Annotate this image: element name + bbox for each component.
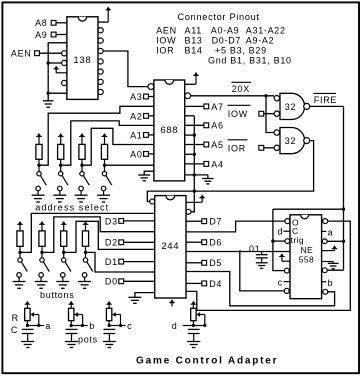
capacitor pot c — [104, 329, 116, 341]
potentiometer c — [106, 308, 111, 320]
wire trigger loop left — [273, 209, 285, 270]
trigger bubble U5 L5 — [284, 268, 289, 273]
svg-text:AEN: AEN — [11, 49, 32, 59]
pin label c — [278, 277, 290, 287]
pin label A9 — [35, 30, 47, 40]
connector pin D2 — [119, 240, 124, 245]
+5V arrow U1 VCC — [98, 7, 111, 23]
wire FIRE down — [343, 106, 345, 270]
resistor RB2 — [39, 231, 45, 246]
pin label A0 — [130, 149, 142, 159]
svg-text:b: b — [328, 278, 334, 288]
svg-text:32: 32 — [285, 102, 296, 112]
output bubble U1 O4 — [98, 69, 103, 74]
svg-text:D7: D7 — [209, 217, 222, 227]
wire IOW to U3A — [264, 113, 274, 115]
inverting input bubble U1 G2B — [62, 60, 67, 65]
pin label D6 — [209, 238, 222, 248]
node 20X junction — [264, 94, 267, 97]
+5V arrow pot b — [68, 301, 74, 309]
output bubble U1 O6 — [98, 89, 103, 94]
wire U2 to A5 — [185, 144, 204, 146]
pin label A4 — [211, 159, 223, 169]
inverting input bubble U1 G1 — [62, 80, 67, 85]
wire switch4 to U2 — [105, 164, 154, 166]
wire U4 to U5 out4 — [186, 221, 350, 310]
label D0-D7 — [212, 35, 242, 45]
svg-text:Gnd B1, B31, B10: Gnd B1, B31, B10 — [208, 55, 292, 65]
pot b wiper — [74, 312, 83, 325]
svg-text:A3: A3 — [130, 92, 142, 102]
ground pot a — [21, 342, 34, 348]
pin stub a — [39, 321, 51, 331]
wire pot c junction — [109, 321, 120, 326]
wire U3B output to U4 enables — [147, 141, 313, 202]
ground U2 right — [202, 175, 213, 184]
title Game Control Adapter — [136, 355, 278, 366]
label B13 — [185, 35, 203, 45]
connector pin A7 — [204, 104, 209, 109]
svg-text:244: 244 — [161, 241, 179, 252]
label Gnd B1, B31, B10 — [208, 55, 292, 65]
pin label D7 — [209, 217, 222, 227]
pin label b — [322, 278, 334, 288]
node pot b 2 — [81, 324, 84, 327]
button switch SB4 — [82, 258, 93, 277]
svg-text:.01: .01 — [246, 244, 261, 254]
connector pin D3 — [119, 219, 124, 224]
svg-text:A1: A1 — [130, 130, 142, 140]
wire D2 to U4 — [124, 241, 155, 243]
connector pin A0 — [144, 152, 149, 157]
pin label A3 — [130, 92, 142, 102]
svg-text:C: C — [11, 325, 18, 335]
wire pot d junction — [193, 321, 204, 326]
pin stub c — [121, 321, 133, 331]
pin label A7 — [211, 102, 223, 112]
svg-text:A2: A2 — [130, 111, 142, 121]
wire U1 enable rail — [48, 43, 67, 93]
inverting enable bubble U2 — [148, 84, 154, 90]
wire trig branch to U5 L7 — [240, 252, 284, 291]
svg-text:D3: D3 — [105, 216, 118, 226]
pin label A1 — [130, 130, 142, 140]
node pot d 2 — [203, 324, 206, 327]
svg-text:address select: address select — [35, 202, 109, 212]
potentiometer d — [191, 308, 196, 320]
svg-text:c: c — [127, 321, 132, 331]
node pot c 1 — [108, 324, 111, 327]
ground U4 left — [128, 293, 154, 304]
svg-text:A0: A0 — [130, 149, 142, 159]
wire A9 to U1 — [56, 34, 67, 36]
wire U3A output FIRE — [310, 105, 344, 107]
output bubble U1 O1 — [98, 38, 103, 43]
connector pin A1 — [144, 133, 149, 138]
input bubble U3B-2 — [274, 145, 279, 150]
+5V arrow R2 — [58, 133, 64, 144]
pin label D2 — [105, 238, 118, 248]
potentiometer b — [69, 308, 74, 320]
potentiometer a — [25, 308, 30, 320]
button switch SB1 — [17, 258, 27, 277]
wire AEN to U1 — [39, 52, 61, 54]
ground under U1 — [43, 93, 53, 107]
+5V arrow RB2 — [39, 221, 45, 231]
wire button2 to U4 — [42, 217, 155, 253]
svg-text:D2: D2 — [105, 238, 118, 248]
pin stub d — [172, 321, 194, 331]
pin stub b — [83, 321, 95, 331]
wire D1 to U4 — [124, 261, 155, 263]
+5V arrow U5 right — [322, 245, 338, 250]
pin label D3 — [105, 216, 118, 226]
svg-text:IOR: IOR — [156, 45, 174, 55]
svg-text:pots: pots — [78, 334, 98, 344]
+5V arrow RB1 — [17, 221, 23, 231]
wire A1 to U2 — [148, 134, 154, 136]
label +5 B3, B29 — [215, 45, 267, 55]
inverting input bubble U1 pin AEN — [62, 51, 67, 56]
wire U2 to A7 — [185, 105, 204, 107]
svg-text:138: 138 — [73, 55, 91, 66]
svg-text:A11: A11 — [185, 25, 202, 35]
capacitor pot d — [188, 329, 200, 341]
node pot c 2 — [119, 324, 122, 327]
resistor R3 — [79, 144, 85, 159]
label B14 — [185, 45, 203, 55]
ground pot d — [187, 342, 200, 348]
svg-text:FIRE: FIRE — [314, 95, 337, 105]
node FIRE-loop — [342, 208, 345, 211]
wire RB2 to button — [41, 246, 43, 257]
wire A0 to U2 — [148, 153, 154, 155]
svg-text:B14: B14 — [185, 45, 203, 55]
svg-text:20X: 20X — [232, 84, 250, 94]
wire R3 to switch — [81, 159, 83, 171]
input bubble U3B-1 — [274, 130, 279, 135]
svg-text:IOR: IOR — [228, 143, 246, 153]
input bubble U3A-2 — [274, 111, 279, 116]
node RB4 junction — [84, 251, 87, 254]
input bubble U3A-1 — [274, 96, 279, 101]
or-gate U3A 7432 — [280, 93, 310, 119]
label IOR — [156, 45, 174, 55]
wire pot a junction — [27, 321, 38, 326]
wire U2 to A6 — [185, 124, 204, 126]
pin label A6 — [211, 121, 223, 131]
svg-text:+5 B3, B29: +5 B3, B29 — [215, 45, 267, 55]
svg-text:b: b — [89, 321, 95, 331]
node pot a 1 — [26, 324, 29, 327]
label A0-A9 — [211, 25, 240, 35]
wire U4 trig net — [186, 251, 290, 253]
+5V arrow U5 left — [279, 253, 290, 261]
wire U2 Q tie — [185, 116, 195, 191]
connector pin A9 — [51, 32, 56, 37]
svg-text:D1: D1 — [105, 257, 118, 267]
svg-text:D0: D0 — [105, 277, 118, 287]
node Q tie 1 — [193, 133, 196, 136]
pin label D1 — [105, 257, 118, 267]
ground S2 — [53, 191, 66, 202]
+5V arrow RB4 — [83, 221, 89, 231]
svg-text:558: 558 — [299, 254, 314, 264]
resistor RB4 — [82, 231, 88, 246]
svg-text:A8: A8 — [35, 18, 47, 28]
connector pin A4 — [204, 162, 209, 167]
svg-text:B13: B13 — [185, 35, 203, 45]
node RB3 junction — [62, 251, 65, 254]
node R1-switch junction — [37, 164, 40, 167]
ground SB3 — [56, 277, 69, 288]
wire switch3 to U2 — [82, 128, 154, 165]
button switch SB3 — [61, 258, 72, 277]
svg-text:32: 32 — [285, 136, 296, 146]
trigger bubble U5 L3 — [273, 239, 290, 244]
+5V arrow RB3 — [61, 221, 67, 231]
pin label D0 — [105, 277, 118, 287]
net label FIRE — [314, 93, 338, 105]
connector pin AEN — [35, 51, 40, 56]
ground U2 left — [138, 171, 154, 181]
label A11 — [185, 25, 202, 35]
+5V arrow R3 — [79, 133, 85, 144]
connector pin D0 — [119, 279, 124, 284]
switch S4 — [101, 172, 112, 191]
pin label d — [278, 226, 290, 236]
svg-text:688: 688 — [160, 125, 178, 136]
connector pin A6 — [204, 123, 209, 128]
net label 20X — [232, 82, 252, 94]
pin label D5 — [209, 258, 222, 268]
label buttons — [40, 290, 74, 300]
wire switch2 to U2 — [61, 121, 154, 165]
node R2-switch junction — [59, 164, 62, 167]
label AEN — [156, 25, 177, 35]
ground pot c — [103, 342, 116, 348]
node R4-switch junction — [103, 164, 106, 167]
node RB1 junction — [18, 251, 21, 254]
connector pin IOW — [259, 111, 264, 116]
svg-text:AEN: AEN — [156, 25, 177, 35]
pin label AEN — [11, 49, 32, 59]
node RB2 junction — [40, 251, 43, 254]
output bubble U2 P=Q — [185, 93, 191, 99]
node pot a 2 — [37, 324, 40, 327]
comparator U2 74688 — [154, 80, 185, 181]
wire U4 to D6 — [186, 241, 202, 243]
pot a wiper — [30, 312, 39, 325]
output bubble U5 R7 — [323, 289, 328, 294]
ground SB2 — [35, 277, 48, 288]
connector pin A5 — [204, 142, 209, 147]
node Q tie 2 — [193, 153, 196, 156]
label .01 — [246, 244, 261, 254]
wire D3 to U4 — [124, 220, 155, 222]
node FIRE-R3 — [342, 240, 345, 243]
svg-text:A6: A6 — [211, 121, 223, 131]
capacitor C5 .01 — [256, 252, 268, 263]
+5V arrow U1 pin5 — [53, 66, 67, 73]
wire U4 to U5 out1 — [186, 221, 285, 232]
svg-text:D0-D7: D0-D7 — [212, 35, 242, 45]
wire A8 to U1 — [56, 22, 67, 24]
svg-text:a: a — [45, 321, 51, 331]
svg-text:D6: D6 — [209, 238, 222, 248]
wire U4 to D5 — [186, 262, 202, 264]
pot d wiper — [196, 312, 205, 325]
svg-text:d: d — [172, 321, 178, 331]
wire button1 to U4 — [20, 213, 155, 252]
wire R2 to switch — [60, 159, 62, 171]
svg-text:A0-A9: A0-A9 — [211, 25, 240, 35]
or-gate U3B 7432 — [280, 128, 310, 154]
svg-text:buttons: buttons — [40, 290, 74, 300]
label Connector Pinout — [178, 12, 260, 22]
node loop-L3 — [271, 239, 274, 242]
connector pin D4 — [202, 281, 207, 286]
label A31-A22 — [246, 25, 286, 35]
+5V arrow U4 pin — [186, 194, 205, 202]
svg-text:A7: A7 — [211, 102, 223, 112]
pin label A2 — [130, 111, 142, 121]
wire RB3 to button — [63, 246, 65, 257]
switch S2 — [58, 172, 69, 191]
svg-text:R: R — [12, 313, 19, 323]
pin label A5 — [211, 140, 223, 150]
svg-text:a: a — [328, 228, 334, 238]
trigger bubble U5 R5 — [322, 268, 343, 273]
wire D0 to U4 — [124, 280, 155, 282]
connector pin A2 — [144, 114, 149, 119]
output bubble U1 O0 — [98, 28, 103, 33]
+5V arrow pot a — [25, 301, 31, 309]
wire pot b junction — [71, 321, 82, 326]
node Q tie 3 — [193, 173, 196, 176]
wire trigger loop top — [273, 208, 344, 210]
wire U1 output to U2 enable — [103, 51, 148, 87]
label C — [11, 325, 18, 335]
enable bubble U4 right — [186, 191, 194, 214]
buffer U4 74244 — [155, 196, 186, 298]
capacitor pot a — [22, 329, 34, 341]
ground U5 right — [322, 262, 339, 269]
label pots — [78, 334, 98, 344]
svg-text:Connector Pinout: Connector Pinout — [178, 12, 260, 22]
ground C5 — [256, 263, 268, 269]
output bubble U1 O5 — [98, 79, 103, 84]
button switch SB2 — [39, 258, 50, 277]
decoder U1 74138 — [67, 17, 98, 100]
node rail-bubble junction — [47, 61, 50, 64]
svg-text:A31-A22: A31-A22 — [246, 25, 286, 35]
node pot b 1 — [70, 324, 73, 327]
connector pin IOR — [259, 145, 264, 150]
connector pin D7 — [202, 219, 207, 224]
connector pin D1 — [119, 259, 124, 264]
svg-text:IOW: IOW — [156, 35, 176, 45]
capacitor pot b — [66, 329, 78, 341]
wire button4 to U4 — [86, 252, 155, 272]
timer U5 NE558 — [290, 215, 322, 299]
wire button3 to U4 — [64, 221, 155, 252]
label R — [12, 313, 19, 323]
svg-text:c: c — [278, 277, 283, 287]
wire U2 ground pin — [185, 174, 208, 176]
node pot d 1 — [192, 324, 195, 327]
node trig junction — [239, 250, 241, 252]
node rail-ground junction — [47, 92, 50, 95]
label A9-A2 — [246, 35, 275, 45]
resistor R1 — [36, 144, 42, 159]
output bubble U5 L1 — [285, 219, 290, 224]
svg-text:trig: trig — [291, 235, 304, 245]
svg-text:A9: A9 — [35, 30, 47, 40]
connector pin A3 — [144, 94, 149, 99]
node R3-switch junction — [80, 164, 83, 167]
pin label IOR — [228, 140, 248, 154]
pin label a — [322, 228, 334, 238]
+5V arrow pot c — [106, 301, 112, 309]
wire A2 to U2 — [148, 115, 154, 117]
resistor R2 — [58, 144, 64, 159]
resistor RB3 — [61, 231, 67, 246]
pot c wiper — [112, 312, 121, 325]
wire U4 to D4 — [186, 282, 202, 284]
ground S1 — [32, 191, 45, 202]
output bubble U5 R1 — [323, 219, 328, 224]
svg-text:A9-A2: A9-A2 — [246, 35, 275, 45]
wire U4 to D7 — [186, 220, 202, 222]
node W junction — [193, 189, 196, 192]
svg-text:d: d — [278, 226, 284, 236]
connector pin D5 — [202, 260, 207, 265]
ground SB4 — [78, 277, 91, 288]
switch S3 — [79, 172, 90, 191]
svg-text:D4: D4 — [209, 279, 222, 289]
wire IOR to U3B — [264, 147, 274, 149]
wire U2 to A4 — [185, 163, 204, 165]
resistor RB1 — [17, 231, 23, 246]
ground S4 — [97, 191, 110, 202]
wire rail to bubble — [48, 62, 61, 64]
label IOW — [156, 35, 176, 45]
wire switch1 to U2 — [39, 106, 154, 165]
ground S3 — [75, 191, 88, 202]
pin label D4 — [209, 279, 222, 289]
svg-text:IOW: IOW — [228, 109, 248, 119]
wire R1 to switch — [38, 159, 40, 171]
enable bubble U4 left — [150, 199, 155, 204]
ground pot b — [65, 342, 78, 348]
svg-text:A4: A4 — [211, 159, 223, 169]
+5V arrow U4 bottom — [169, 299, 175, 306]
wire A3 to U2 — [148, 96, 154, 98]
wire RB4 to button — [85, 246, 87, 257]
wire 20X — [191, 95, 274, 97]
pin label IOW — [228, 105, 251, 119]
wire R4 to switch — [104, 159, 106, 171]
output bubble U1 O2 — [98, 48, 103, 53]
svg-text:D5: D5 — [209, 258, 222, 268]
connector pin A8 — [51, 20, 56, 25]
ground SB1 — [13, 277, 26, 288]
output bubble U5 L7 — [284, 288, 289, 293]
wire U4 to U5 out3 — [186, 272, 335, 306]
resistor R4 — [101, 144, 107, 159]
connector pin D6 — [202, 240, 207, 245]
